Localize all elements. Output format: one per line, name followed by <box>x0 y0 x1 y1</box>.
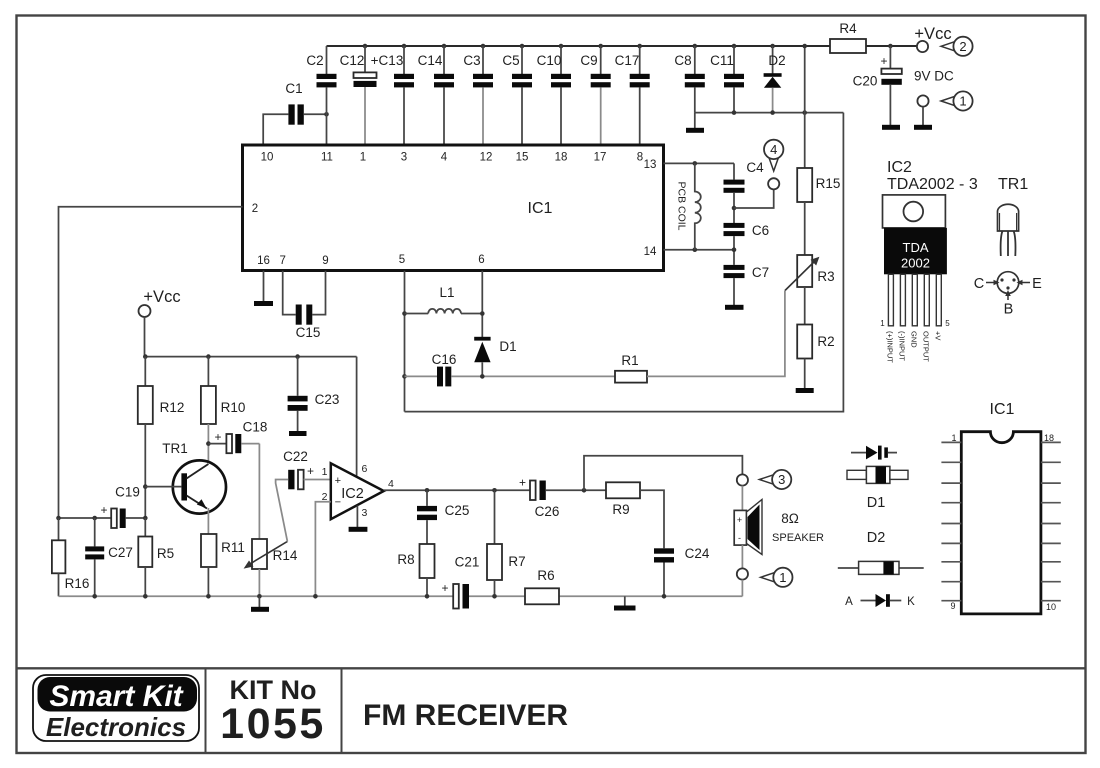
bottom common rail <box>59 595 454 597</box>
wire R2 to ground <box>804 359 806 389</box>
wire R7 to rail <box>494 580 496 596</box>
wire R5 to rail <box>144 567 146 596</box>
wire R5 top <box>144 518 146 537</box>
svg-text:C4: C4 <box>746 160 764 175</box>
wire C22 left down to R14 wiper <box>276 480 289 542</box>
svg-text:4: 4 <box>770 142 777 157</box>
balloon 1 <box>941 91 973 110</box>
wire pin 13 <box>664 162 735 164</box>
wire C22 right to IC2 pin1 <box>304 479 331 481</box>
svg-text:1: 1 <box>951 433 956 443</box>
TR1 pinout bottom view <box>974 272 1042 318</box>
svg-text:16: 16 <box>257 255 270 267</box>
svg-text:C23: C23 <box>315 392 340 407</box>
svg-text:9: 9 <box>322 255 328 267</box>
ground under R2 <box>796 388 814 393</box>
terminal 4 <box>768 178 779 189</box>
capacitor C14 <box>418 44 454 144</box>
svg-text:TR1: TR1 <box>998 176 1028 193</box>
wire R10 to C18 node <box>207 424 209 463</box>
wire bus to C20 <box>889 46 891 69</box>
svg-text:GND: GND <box>910 331 919 348</box>
svg-text:C20: C20 <box>853 74 878 89</box>
svg-text:3: 3 <box>401 152 407 164</box>
terminal 3 <box>737 474 748 485</box>
svg-text:8: 8 <box>637 152 643 164</box>
node pin5/C16 <box>402 374 407 379</box>
svg-text:C9: C9 <box>580 53 597 68</box>
capacitor C11 <box>710 44 744 113</box>
svg-text:C26: C26 <box>535 504 560 519</box>
capacitor C24 <box>654 546 710 596</box>
wire C1 left to pin 10 <box>263 114 288 144</box>
svg-text:C10: C10 <box>537 53 562 68</box>
svg-text:1: 1 <box>779 570 786 585</box>
capacitor C4 <box>724 160 765 223</box>
op-amp IC2 <box>331 463 384 519</box>
svg-text:(-)INPUT: (-)INPUT <box>898 331 907 361</box>
svg-text:2: 2 <box>959 39 966 54</box>
svg-text:+: + <box>335 475 341 487</box>
svg-text:C2: C2 <box>306 53 323 68</box>
wire R15 column from bus <box>804 46 806 168</box>
svg-text:R16: R16 <box>65 576 90 591</box>
svg-text:C15: C15 <box>296 325 321 340</box>
svg-text:6: 6 <box>362 463 368 475</box>
wire terminal 3 to speaker <box>741 486 743 511</box>
svg-text:+: + <box>307 464 314 478</box>
svg-text:R2: R2 <box>817 334 834 349</box>
svg-text:+Vcc: +Vcc <box>143 288 180 306</box>
svg-text:SPEAKER: SPEAKER <box>772 532 824 544</box>
svg-text:C11: C11 <box>710 53 734 68</box>
wire terminal 1 to rail <box>741 580 743 597</box>
supply rail of TR1 stage <box>145 356 357 358</box>
wire R4 right to terminal 2 <box>866 45 917 47</box>
wire R11 to rail <box>207 567 209 596</box>
resistor R5 <box>138 537 174 568</box>
capacitor C23 <box>288 357 340 431</box>
terminal 1 (9V return) <box>917 95 928 106</box>
wire IC2 pin2 loop <box>315 502 330 597</box>
wire C20 to ground <box>889 85 891 125</box>
resistor R10 <box>201 357 245 424</box>
wire C26 to R9 <box>546 489 606 491</box>
TDA2002 pin 3 <box>912 274 917 326</box>
ground stub near R6 <box>624 596 626 605</box>
varicap diode D1 <box>474 337 516 377</box>
capacitor C12 (electrolytic) <box>340 44 377 144</box>
svg-text:R5: R5 <box>157 546 174 561</box>
capacitor C26 (electrolytic) <box>519 476 559 520</box>
TDA2002 pin 1 <box>888 274 893 326</box>
wire R9 to C24 <box>640 490 664 548</box>
op IC1 (schematic block) <box>243 145 664 271</box>
svg-text:8Ω: 8Ω <box>781 511 799 526</box>
wire up-branch to terminal 3 <box>584 456 742 491</box>
capacitor C9 <box>580 44 610 144</box>
svg-text:C19: C19 <box>115 485 140 500</box>
capacitor C10 <box>537 44 571 144</box>
svg-text:FM RECEIVER: FM RECEIVER <box>363 699 568 732</box>
balloon 4 <box>764 140 783 171</box>
svg-text:1: 1 <box>880 319 885 328</box>
svg-text:10: 10 <box>261 152 274 164</box>
svg-text:14: 14 <box>644 246 657 258</box>
capacitor C18 (electrolytic) <box>208 420 267 454</box>
wire R16 top <box>58 518 60 540</box>
node C1/C2 <box>324 112 329 117</box>
svg-text:9: 9 <box>950 601 955 611</box>
svg-text:D2: D2 <box>768 53 785 68</box>
Smart Kit Electronics logo <box>33 675 199 742</box>
wire R8 to rail <box>426 578 428 596</box>
svg-text:18: 18 <box>555 152 568 164</box>
resistor R7 <box>487 544 526 580</box>
svg-text:2: 2 <box>252 203 258 215</box>
wire R1 to R3 wiper <box>647 291 785 377</box>
svg-text:R7: R7 <box>508 554 525 569</box>
ground stub at R14 <box>258 596 260 607</box>
svg-text:2002: 2002 <box>901 256 930 271</box>
svg-text:TDA: TDA <box>903 240 929 255</box>
KIT No 1055 <box>220 675 326 748</box>
capacitor C6 <box>724 223 770 265</box>
svg-text:+Vcc: +Vcc <box>914 25 951 43</box>
svg-text:+: + <box>880 54 887 68</box>
svg-text:C1: C1 <box>285 81 302 96</box>
trimmer R3 <box>785 255 835 291</box>
node C4/C6 to terminal 4 <box>732 206 737 211</box>
resistor R15 <box>797 168 840 202</box>
capacitor C22 (electrolytic) <box>283 449 314 489</box>
svg-text:5: 5 <box>399 254 405 266</box>
capacitor C15 <box>296 305 321 341</box>
svg-text:(+)INPUT: (+)INPUT <box>886 331 895 363</box>
node C19 left <box>56 516 61 521</box>
svg-text:C14: C14 <box>418 53 443 68</box>
svg-text:C6: C6 <box>752 223 769 238</box>
inductor L1 <box>405 285 483 314</box>
node C19 right <box>143 516 148 521</box>
DIP right pins <box>1041 442 1061 600</box>
svg-text:13: 13 <box>644 159 657 171</box>
svg-text:D2: D2 <box>867 530 886 546</box>
trimmer R14 <box>244 539 298 569</box>
wire pin 9 to C15 <box>312 271 325 315</box>
svg-text:C16: C16 <box>432 352 457 367</box>
wire pin 6 <box>481 271 483 337</box>
resistor R2 <box>797 325 834 359</box>
wire +Vcc to rail <box>144 317 146 357</box>
svg-text:−: − <box>335 497 341 509</box>
wire C8/C11/D2 common to R15 node <box>695 112 844 114</box>
svg-text:+V: +V <box>934 331 943 340</box>
svg-text:TR1: TR1 <box>162 441 188 456</box>
svg-text:C3: C3 <box>463 53 480 68</box>
svg-text:+: + <box>214 430 221 444</box>
wire C18 down to R14 <box>258 444 260 539</box>
svg-text:R14: R14 <box>273 548 298 563</box>
IC1 DIP package drawing <box>961 432 1041 614</box>
capacitor C13 <box>371 44 414 144</box>
wire pin 2 to left rail <box>59 207 243 518</box>
svg-text:R12: R12 <box>160 400 185 415</box>
capacitor C27 <box>85 545 133 596</box>
capacitor C21 (electrolytic, in line) <box>441 555 479 609</box>
svg-text:+: + <box>100 503 107 517</box>
svg-text:A: A <box>845 596 853 608</box>
svg-text:12: 12 <box>480 152 493 164</box>
svg-text:1: 1 <box>959 94 966 109</box>
svg-text:10: 10 <box>1046 602 1056 612</box>
svg-text:9V DC: 9V DC <box>914 69 954 84</box>
svg-text:C12: C12 <box>340 53 365 68</box>
svg-text:4: 4 <box>388 478 394 490</box>
svg-text:C5: C5 <box>502 53 519 68</box>
svg-text:R10: R10 <box>221 400 246 415</box>
IC2 TDA2002 package drawing <box>883 195 947 274</box>
ground under terminal 1 <box>914 125 932 130</box>
diode D2 symbol <box>845 594 915 608</box>
zener diode D2 <box>764 44 786 113</box>
ground under C7 <box>725 305 744 310</box>
resistor R8 <box>397 544 434 578</box>
capacitor C8 <box>674 44 704 113</box>
svg-text:C18: C18 <box>243 420 268 435</box>
svg-text:11: 11 <box>321 152 333 164</box>
balloon 3 <box>759 470 791 489</box>
svg-text:15: 15 <box>516 152 529 164</box>
svg-text:R3: R3 <box>817 269 834 284</box>
wire terminal 1 to ground <box>922 107 924 125</box>
ground bar under C23 <box>289 431 307 436</box>
svg-text:R9: R9 <box>612 502 629 517</box>
terminal 1 (speaker return) <box>737 568 748 579</box>
svg-text:+: + <box>441 581 448 595</box>
svg-text:-: - <box>738 533 741 543</box>
wire rail down to IC2 pin6 <box>356 357 358 477</box>
svg-text:C27: C27 <box>108 545 133 560</box>
resistor R6 (in line) <box>525 568 559 604</box>
svg-text:1055: 1055 <box>220 700 326 748</box>
wire emitter down to R11 <box>207 508 209 534</box>
svg-text:+: + <box>737 515 742 525</box>
svg-text:5: 5 <box>945 319 950 328</box>
svg-text:4: 4 <box>441 152 448 164</box>
DIP left pins <box>941 442 961 600</box>
diode D1 symbol (varicap) <box>851 446 897 460</box>
svg-text:C8: C8 <box>674 53 691 68</box>
wire pin 5 <box>404 271 406 412</box>
ground under pin 16 <box>254 301 273 306</box>
node pin14/C6/C7 <box>732 247 737 252</box>
ground under C20 <box>882 125 900 130</box>
node base/R12 <box>143 484 148 489</box>
wire R3 to R2 <box>804 287 806 325</box>
svg-text:C24: C24 <box>685 546 710 561</box>
wire R15 to R3 <box>804 202 806 255</box>
node pin5/L1 <box>402 311 407 316</box>
IC2 pin3 to ground <box>356 506 358 528</box>
wire pin 14 <box>664 249 735 251</box>
svg-text:C21: C21 <box>455 555 480 570</box>
svg-text:C17: C17 <box>615 53 640 68</box>
node D1/C16/R1 <box>480 374 485 379</box>
capacitor C5 <box>502 44 532 144</box>
node C27 <box>92 516 97 521</box>
capacitor C7 <box>724 265 770 305</box>
svg-text:C7: C7 <box>752 265 769 280</box>
capacitor C20 <box>853 54 902 89</box>
wire pin 7 to C15 <box>283 271 296 315</box>
capacitor C3 <box>463 44 493 144</box>
svg-text:C22: C22 <box>283 449 308 464</box>
resistor R9 <box>606 482 640 517</box>
balloon 1 <box>761 568 793 587</box>
svg-text:Smart Kit: Smart Kit <box>49 680 184 713</box>
terminal 2 (+Vcc) <box>914 25 951 52</box>
resistor R16 <box>52 540 89 591</box>
svg-text:B: B <box>1004 302 1014 318</box>
wire stub to ground under C8 <box>694 113 696 128</box>
resistor R12 <box>138 357 185 424</box>
svg-text:6: 6 <box>478 254 484 266</box>
svg-text:K: K <box>907 596 915 608</box>
capacitor C19 (electrolytic) <box>59 485 146 529</box>
PCB coil L <box>676 163 701 249</box>
wire R12 to TR1 base node <box>144 424 146 518</box>
svg-text:PCB COIL: PCB COIL <box>676 181 688 230</box>
capacitor C17 <box>615 44 650 144</box>
capacitor C2 <box>306 46 336 144</box>
svg-text:E: E <box>1032 276 1042 292</box>
svg-text:+C13: +C13 <box>371 53 404 68</box>
wire R7 column <box>494 490 496 544</box>
TDA2002 pin 4 <box>924 274 929 326</box>
resistor R1 <box>615 353 647 383</box>
capacitor C1 <box>285 81 303 125</box>
feedback loop wire right side <box>405 113 844 412</box>
speaker <box>734 500 824 555</box>
ground under C8 <box>686 128 704 133</box>
TDA2002 pin 5 <box>936 274 941 326</box>
TDA2002 pin 2 <box>900 274 905 326</box>
svg-text:R6: R6 <box>537 568 554 583</box>
svg-text:R8: R8 <box>397 552 414 567</box>
svg-text:TDA2002 - 3: TDA2002 - 3 <box>887 176 978 193</box>
node C18/collector <box>206 441 211 446</box>
wire C27 column <box>94 518 96 546</box>
svg-text:Electronics: Electronics <box>46 712 186 742</box>
svg-text:R11: R11 <box>221 540 245 555</box>
svg-text:R4: R4 <box>839 21 857 36</box>
diode D2 physical <box>838 561 924 574</box>
svg-text:7: 7 <box>279 255 285 267</box>
svg-text:+: + <box>519 476 526 490</box>
wire C1 right to node <box>304 113 327 115</box>
svg-text:IC2: IC2 <box>887 159 912 176</box>
wire R14 to rail <box>258 569 260 596</box>
svg-text:D1: D1 <box>499 339 516 354</box>
svg-text:3: 3 <box>362 507 368 519</box>
svg-text:OUTPUT: OUTPUT <box>922 331 931 362</box>
capacitor C25 <box>417 490 469 544</box>
wire R16 to rail <box>58 573 60 596</box>
svg-text:IC2: IC2 <box>341 486 364 502</box>
svg-text:17: 17 <box>594 152 607 164</box>
top supply bus <box>327 45 831 47</box>
svg-text:3: 3 <box>778 472 785 487</box>
node junction C20 <box>888 44 893 49</box>
TR1 TO-92 package drawing <box>998 204 1019 256</box>
transistor TR1 <box>145 441 226 514</box>
svg-text:IC1: IC1 <box>990 401 1015 418</box>
svg-text:C: C <box>974 276 984 292</box>
svg-text:R1: R1 <box>621 353 638 368</box>
svg-text:R15: R15 <box>816 176 841 191</box>
IC2 output wire pin 4 <box>384 489 427 491</box>
diode D1 physical <box>847 466 908 483</box>
wire speaker to terminal 1 <box>741 545 743 568</box>
+Vcc terminal left <box>139 288 181 317</box>
resistor R4 <box>830 21 866 53</box>
balloon 2 <box>941 37 973 56</box>
capacitor C16 <box>405 352 616 386</box>
svg-text:IC1: IC1 <box>528 200 553 217</box>
svg-text:D1: D1 <box>867 495 886 511</box>
svg-text:18: 18 <box>1044 433 1054 443</box>
wire pin 16 to ground <box>263 271 265 301</box>
svg-text:L1: L1 <box>439 285 454 300</box>
resistor R11 <box>201 534 245 567</box>
svg-text:C25: C25 <box>445 503 470 518</box>
svg-text:1: 1 <box>322 466 328 478</box>
svg-text:1: 1 <box>360 152 366 164</box>
